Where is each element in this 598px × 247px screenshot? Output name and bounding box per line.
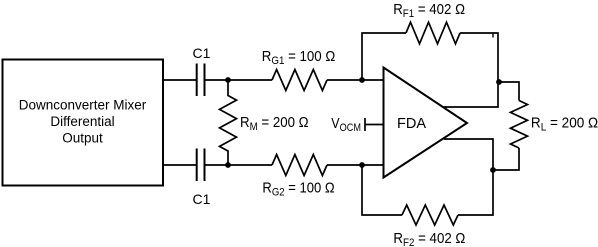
svg-text:Differential: Differential [50, 114, 114, 129]
box text [19, 98, 147, 146]
svg-text:RG2 = 100 Ω: RG2 = 100 Ω [262, 180, 334, 199]
wire: box to C1 top [163, 79, 196, 81]
node junction: top input / RM [225, 77, 231, 83]
resistor RF2 [402, 205, 458, 225]
wire: output node to RL top [499, 82, 519, 101]
resistor RF1 [406, 22, 460, 44]
wire: RG2 to FDA -input [327, 164, 384, 166]
wire: VOCM to FDA [365, 124, 384, 126]
op-amp FDA (fully differential amplifier) [384, 68, 468, 178]
svg-text:C1: C1 [193, 45, 211, 61]
svg-text:RF2 = 402 Ω: RF2 = 402 Ω [393, 230, 465, 247]
wire: C1 bottom to RG2 [205, 164, 273, 166]
node junction: bottom input / RM [225, 162, 231, 168]
wire: top feedback left vertical [362, 33, 406, 80]
node junction: bottom feedback tap [359, 162, 365, 168]
svg-text:FDA: FDA [397, 116, 426, 132]
wire: top feedback right, down to output node [444, 33, 499, 107]
wire: bottom output to feedback right vertical [444, 139, 493, 215]
wire: RG1 to FDA +input [327, 79, 384, 81]
source block: Downconverter Mixer Differential Output [3, 60, 164, 186]
resistor RG1 [272, 70, 327, 91]
svg-text:Downconverter Mixer: Downconverter Mixer [19, 98, 147, 113]
node junction: -output / RL bottom [490, 167, 496, 173]
wire: box to C1 bottom [163, 164, 196, 166]
node junction: top feedback tap [359, 77, 365, 83]
resistor RL (vertical) [511, 101, 528, 149]
wire: bottom feedback left vertical [362, 165, 402, 215]
node VOCM input tick [364, 118, 366, 131]
resistor RM (vertical) [220, 80, 237, 165]
svg-text:RM = 200 Ω: RM = 200 Ω [240, 114, 309, 133]
svg-text:Output: Output [62, 131, 103, 146]
resistor RG2 [272, 155, 327, 176]
wire: C1 top to RG1 [205, 79, 273, 81]
svg-text:C1: C1 [193, 191, 211, 207]
node junction: +output / RL top [496, 79, 502, 85]
svg-text:VOCM: VOCM [331, 115, 361, 134]
svg-text:RL = 200 Ω: RL = 200 Ω [531, 115, 598, 134]
wire stub [492, 34, 494, 38]
capacitor C1 (top) [197, 64, 205, 97]
svg-text:RG1 = 100 Ω: RG1 = 100 Ω [262, 48, 336, 67]
wire: RL bottom to -output node [493, 148, 519, 170]
capacitor C1 (bottom) [197, 149, 205, 182]
svg-text:RF1 = 402 Ω: RF1 = 402 Ω [393, 1, 465, 20]
